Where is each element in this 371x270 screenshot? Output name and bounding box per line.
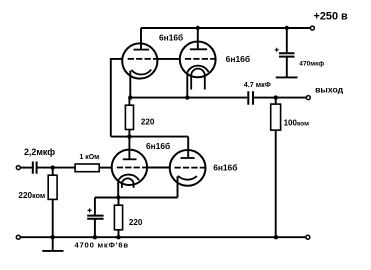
svg-text:6н16б: 6н16б [226,54,251,64]
heater V1b [191,69,205,90]
wire cathode lead V2b [177,176,179,197]
capacitor C1 2.2uF plates [33,162,37,174]
svg-text:470мкф: 470мкф [299,60,324,67]
tube V2a envelope [112,150,147,185]
resistor R4 100k [271,104,281,130]
wire input terminal to C1 [20,167,32,169]
svg-text:4.7 мкФ: 4.7 мкФ [244,80,271,89]
wire R2 bottom to rail [52,199,54,237]
junction rail / ground [51,235,55,239]
wire lead R5 top [118,198,120,206]
anode bar V1a [134,49,150,51]
wire lead capacitor C4 top [286,28,288,52]
svg-text:4700 мкФ'6в: 4700 мкФ'6в [75,240,129,249]
wire lead R4 bottom to rail [275,130,277,237]
wire output node to terminal [254,97,307,99]
svg-text:220ком: 220ком [18,191,45,200]
wire R1 right to grid V2a [99,167,112,169]
wire cathode lead V1a [129,71,131,98]
junction input / R2 [51,165,55,169]
junction bus / V1b cathode [185,95,189,99]
tube V1b envelope [180,42,216,78]
svg-text:+250 в: +250 в [314,11,349,23]
junction top rail / V1b anode [196,26,200,30]
grid V2a dashed [117,167,147,169]
anode bar V1b [190,48,207,50]
wire lead C3 bottom [94,219,96,237]
wire lead resistor R3 bottom [128,130,130,137]
junction rail / R5 [116,235,120,239]
cathode arc V1a [131,70,151,75]
terminal output [306,96,310,100]
capacitor C3 4700uF plates [87,216,103,219]
wire lead C3 top [94,198,96,215]
svg-text:выход: выход [315,85,344,95]
svg-text:220: 220 [141,118,155,127]
resistor R2 220k [48,175,57,199]
terminal bottom right [306,235,310,239]
wire anode junction horizontal [111,136,188,138]
junction rail / C3 [93,235,97,239]
wire top rail +250V [141,27,311,29]
wire lead resistor R3 top [128,98,130,106]
wire lead R5 bottom [118,230,120,237]
wire grid link upper tubes [157,58,180,60]
wire feedback left vertical to grid V1a [111,59,123,137]
wire anode lead tube V1b [197,28,199,49]
resistor R1 1 kOhm [75,164,99,172]
svg-text:100ком: 100ком [284,119,310,128]
capacitor C2 4.7uF plates [248,91,253,105]
junction bus / V1a cathode / R3 [128,95,132,99]
resistor R3 220 upper [125,105,133,129]
junction rail / R4 [274,235,278,239]
wire C1 to node A [37,167,75,169]
wire grid link lower tubes [147,167,170,169]
wire node A to R2 [52,168,54,176]
plus sign C4 [275,48,279,52]
terminal +250V [310,26,314,30]
tube V2b envelope [170,150,206,186]
svg-text:6н16б: 6н16б [213,163,237,173]
wire cathode lead V2a [117,180,119,197]
junction cathodes / R5 [116,195,120,199]
heater V2a [122,178,134,188]
wire anode lead V2a [128,137,130,159]
cathode dome V2a [118,175,139,181]
wire cathode bus upper tubes [130,97,247,99]
junction anodes / R3 [127,134,131,138]
svg-text:1 кОм: 1 кОм [79,154,99,161]
anode bar V2a [123,158,137,160]
junction output / R4 [274,95,278,99]
grid V1a dashed [128,58,158,60]
terminal input [16,166,20,170]
svg-text:6н16б: 6н16б [159,33,183,43]
svg-text:2,2мкф: 2,2мкф [24,147,55,157]
svg-text:220: 220 [129,218,143,227]
wire cathode lead V1b [186,72,188,98]
ground bar [42,250,63,252]
wire cathode link lower tubes [95,197,178,199]
terminal bottom left [16,235,20,239]
wire bottom rail [20,236,306,238]
ground bar under C4 [276,76,298,78]
grid V1b dashed [185,58,216,60]
plus sign C3 [88,208,92,212]
resistor R5 220 lower [114,205,122,230]
tube V1a envelope [122,43,157,78]
anode bar V2b [181,157,195,159]
wire anode lead V2b [187,137,189,158]
svg-text:6н16б: 6н16б [146,141,170,151]
capacitor C4 470uF plates [279,53,295,56]
cathode dome V1b [187,66,208,72]
wire lead capacitor C4 bottom [286,58,288,77]
wire ground stub [52,237,54,250]
junction top rail / C4 [285,26,289,30]
cathode arc V2b [178,176,197,180]
wire anode lead tube V1a [140,28,142,49]
wire lead R4 top [275,98,277,105]
grid V2b dashed [175,167,206,169]
